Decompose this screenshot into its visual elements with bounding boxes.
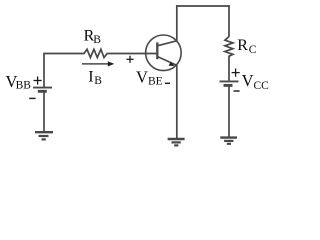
minus sign VCC battery	[234, 90, 240, 92]
wire VBB vertical top	[43, 53, 45, 87]
svg-text:I: I	[88, 69, 93, 86]
wire base horizontal with resistor RB zigzag	[44, 49, 157, 57]
svg-text:V: V	[136, 68, 148, 87]
wire VCC vertical bottom	[228, 86, 230, 137]
svg-text:V: V	[242, 71, 254, 90]
battery VCC short plate	[224, 84, 233, 87]
ground left bar3	[42, 138, 46, 140]
wire top horizontal	[176, 5, 230, 7]
transistor Q1 emitter diagonal	[157, 57, 176, 66]
svg-text:BE: BE	[148, 76, 163, 88]
ground VCC bar1	[220, 136, 237, 138]
svg-text:B: B	[93, 34, 101, 46]
transistor Q1 base bar	[156, 42, 158, 59]
transistor Q1 collector diagonal	[157, 41, 177, 46]
wire emitter vertical	[176, 65, 178, 139]
plus sign VCC battery	[232, 69, 240, 77]
svg-text:C: C	[249, 44, 257, 56]
ground VCC bar3	[227, 143, 231, 145]
svg-text:R: R	[237, 37, 248, 54]
svg-text:CC: CC	[254, 80, 270, 92]
wire collector vertical	[176, 5, 178, 41]
plus sign VBB battery	[34, 76, 42, 84]
ground emitter bar3	[174, 144, 178, 146]
svg-text:B: B	[94, 75, 102, 87]
battery VBB short plate	[38, 90, 47, 93]
battery VBB long plate	[33, 87, 52, 89]
svg-text:BB: BB	[16, 80, 32, 92]
plus sign VBE	[126, 56, 133, 63]
ground VCC bar2	[224, 140, 233, 142]
transistor Q1 emitter arrowhead	[169, 62, 175, 66]
ground emitter bar2	[172, 141, 181, 143]
minus sign VBE	[165, 82, 170, 84]
transistor Q1 circle	[146, 35, 182, 71]
ground emitter bar1	[168, 138, 185, 140]
minus sign VBB battery	[29, 97, 35, 99]
battery VCC long plate	[220, 80, 239, 82]
wire RC vertical with resistor RC zigzag	[225, 5, 233, 80]
current arrow IB head	[108, 61, 115, 66]
ground left bar1	[35, 131, 53, 133]
current arrow IB shaft	[82, 63, 110, 65]
wire VBB vertical bottom	[43, 92, 45, 132]
ground left bar2	[39, 135, 49, 137]
